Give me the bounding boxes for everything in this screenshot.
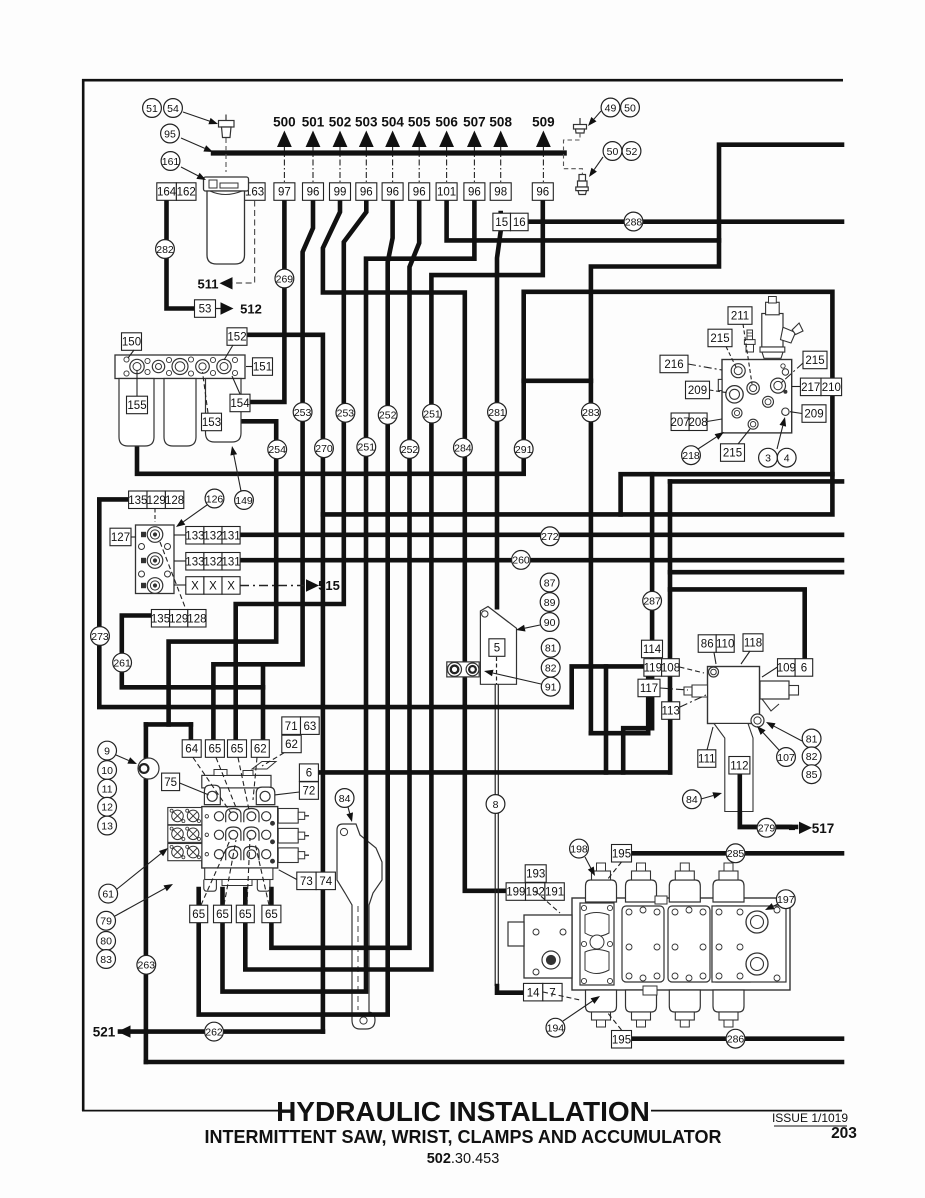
svg-text:X: X <box>191 581 199 593</box>
leader 209a <box>710 390 730 393</box>
svg-text:260: 260 <box>512 555 530 567</box>
svg-text:65: 65 <box>192 909 205 921</box>
svg-text:INTERMITTENT SAW, WRIST, CLAMP: INTERMITTENT SAW, WRIST, CLAMPS AND ACCU… <box>205 1127 722 1147</box>
leader 216 dashdot <box>688 364 722 370</box>
callout circle 82 <box>541 658 560 677</box>
hose 251a from port 509 to bottom label 65c <box>245 200 543 970</box>
callout circle 270 <box>315 439 334 458</box>
svg-text:11: 11 <box>102 784 113 796</box>
callout circle 285 <box>726 844 745 863</box>
svg-text:15: 15 <box>495 217 508 229</box>
svg-text:112: 112 <box>730 760 748 772</box>
svg-text:96: 96 <box>536 187 549 199</box>
hose link 291 to 283 <box>524 378 591 383</box>
labels 86 110 <box>698 635 734 653</box>
hose 97/269 to filter manifold <box>249 200 284 402</box>
svg-text:65: 65 <box>265 909 278 921</box>
label box 195 <box>612 845 632 863</box>
port 507 arrow <box>467 131 482 148</box>
callout circle 91 <box>541 677 560 696</box>
svg-text:152: 152 <box>227 332 246 344</box>
svg-text:14: 14 <box>527 987 540 999</box>
callout circle 291 <box>514 440 533 459</box>
svg-text:95: 95 <box>164 128 176 140</box>
callout circle 89 <box>540 593 559 612</box>
block ports <box>731 364 745 378</box>
svg-text:251: 251 <box>423 408 441 420</box>
port fitting near circle 9 <box>138 758 159 779</box>
leader 153 dashed <box>203 372 209 413</box>
svg-text:X: X <box>227 581 235 593</box>
svg-text:117: 117 <box>640 683 658 695</box>
svg-text:253: 253 <box>294 407 312 419</box>
svg-text:262: 262 <box>205 1026 223 1038</box>
callout circle 284 <box>454 438 473 457</box>
svg-text:191: 191 <box>545 887 564 899</box>
port 501 arrow <box>306 131 321 148</box>
port 504 arrow <box>385 131 400 148</box>
leader 81b to port <box>766 722 802 741</box>
label box 65 <box>205 740 224 758</box>
hose label 96 under port <box>409 183 430 201</box>
port 500 stem <box>283 147 285 183</box>
link valve to row2 <box>174 560 186 562</box>
small fitting left of solenoid <box>746 344 754 352</box>
port 508 arrow <box>493 131 508 148</box>
svg-text:155: 155 <box>127 400 146 412</box>
svg-text:6: 6 <box>801 663 807 675</box>
svg-text:263: 263 <box>138 960 156 972</box>
label box 65 <box>228 740 247 758</box>
svg-text:193: 193 <box>526 869 545 881</box>
svg-text:113: 113 <box>662 706 680 718</box>
callout circle 54 <box>164 99 183 118</box>
labels 133 132 131 row2 <box>185 553 240 571</box>
hose feed down to 109|6 box <box>670 589 805 660</box>
leader 198 to cap <box>585 857 595 876</box>
svg-text:133: 133 <box>185 530 204 542</box>
svg-text:198: 198 <box>570 843 588 855</box>
svg-text:253: 253 <box>337 408 355 420</box>
label box 113 <box>662 702 680 720</box>
label box 152 <box>227 328 247 346</box>
svg-text:279: 279 <box>758 823 776 835</box>
svg-text:119: 119 <box>644 663 662 675</box>
callout circle 4 <box>777 448 796 467</box>
hose 260 from 133-row2 to right edge <box>241 558 843 563</box>
svg-text:512: 512 <box>240 302 262 317</box>
callout circle 51 <box>143 99 162 118</box>
hose 282 from label 164 to box 53 <box>167 200 194 309</box>
hose label 99 under port <box>330 183 351 201</box>
port 502 arrow <box>333 131 348 148</box>
leader 9 to fitting <box>116 755 137 764</box>
callout circle 252 <box>378 406 397 425</box>
svg-text:502: 502 <box>329 115 352 130</box>
svg-text:16: 16 <box>513 217 526 229</box>
label box 209 <box>802 405 826 423</box>
callout circle 251 <box>357 438 376 457</box>
leader 207/208 <box>707 419 722 422</box>
labels 135 129 128 upper <box>128 491 184 509</box>
hose 263 long left vertical <box>144 724 149 1062</box>
main valve bank body <box>168 762 309 892</box>
svg-text:51: 51 <box>146 103 158 115</box>
arrow 512 <box>221 302 234 314</box>
labels 217 210 <box>800 378 841 396</box>
arrow 511 <box>220 277 233 289</box>
svg-text:81: 81 <box>545 643 557 655</box>
svg-text:54: 54 <box>167 103 179 115</box>
hose stub to label 64 <box>189 724 194 741</box>
leader 152 <box>224 345 233 360</box>
callout circle 288 <box>624 212 643 231</box>
svg-text:132: 132 <box>203 530 222 542</box>
label box 151 <box>253 358 273 376</box>
label box 65 <box>236 905 254 923</box>
hose label 96 under port <box>303 183 324 201</box>
leader 191 dashed <box>535 891 560 913</box>
svg-text:50: 50 <box>607 146 619 158</box>
port 504 stem <box>392 147 394 183</box>
callout circle 95 <box>161 124 180 143</box>
hose jog at 724 <box>146 722 191 727</box>
leader 61 to plates <box>117 848 168 889</box>
svg-text:64: 64 <box>185 744 198 756</box>
port 506 arrow <box>439 131 454 148</box>
hose label 98 under port <box>490 183 511 201</box>
leader 72 <box>275 792 300 795</box>
svg-text:96: 96 <box>360 187 373 199</box>
port 505 stem <box>418 147 420 183</box>
callout circle 10 <box>98 761 117 780</box>
callout circle 107 <box>777 748 796 767</box>
leader 215a <box>726 347 736 368</box>
callout circle 272 <box>541 527 560 546</box>
callout circle 90 <box>540 613 559 632</box>
callout circle 84 <box>335 789 354 808</box>
label box 65 <box>190 905 208 923</box>
callout circle 253 <box>336 403 355 422</box>
svg-text:13: 13 <box>101 820 113 832</box>
leader 195b <box>607 1012 622 1030</box>
svg-text:72: 72 <box>303 786 316 798</box>
callout circle 161 <box>161 152 180 171</box>
svg-text:65: 65 <box>231 744 244 756</box>
callout circle 149 <box>235 491 254 510</box>
svg-text:85: 85 <box>806 769 818 781</box>
hose 253b from port 503 to valve label 65b <box>236 200 367 741</box>
svg-text:252: 252 <box>401 444 419 456</box>
callout circle 198 <box>570 839 589 858</box>
svg-text:96: 96 <box>413 187 426 199</box>
svg-text:283: 283 <box>582 407 600 419</box>
svg-text:80: 80 <box>100 936 112 948</box>
leader 3/4 to port <box>777 417 786 449</box>
labels X X X row <box>186 577 240 595</box>
svg-text:150: 150 <box>122 337 141 349</box>
svg-text:515: 515 <box>318 578 340 593</box>
svg-text:285: 285 <box>727 848 745 860</box>
labels 207 208 <box>671 413 708 431</box>
svg-text:9: 9 <box>104 745 110 757</box>
callout circle 8 <box>486 795 505 814</box>
svg-text:149: 149 <box>235 495 253 507</box>
svg-text:3: 3 <box>765 453 771 465</box>
valve port leader <box>247 838 250 905</box>
svg-text:129: 129 <box>147 495 166 507</box>
svg-text:52: 52 <box>626 146 638 158</box>
hose 279 visible over plate <box>740 774 790 827</box>
link valve to rowX <box>174 584 186 586</box>
svg-text:128: 128 <box>187 613 206 625</box>
hose 285 to right edge <box>631 851 842 856</box>
label box 75 <box>162 773 180 791</box>
svg-text:96: 96 <box>307 187 320 199</box>
svg-text:273: 273 <box>91 631 109 643</box>
svg-text:500: 500 <box>273 115 296 130</box>
page border bottom-right segment <box>651 1110 842 1112</box>
svg-text:8: 8 <box>493 799 499 811</box>
callout circle 80 <box>97 932 116 951</box>
callout circle 269 <box>275 269 294 288</box>
svg-text:65: 65 <box>216 909 229 921</box>
labels 199 192 191 <box>506 883 564 901</box>
svg-text:12: 12 <box>101 802 113 814</box>
callout circle 273 <box>91 627 110 646</box>
svg-text:151: 151 <box>253 362 272 374</box>
leader 215b <box>781 363 803 383</box>
leader 217/210 <box>792 386 800 388</box>
port 505 arrow <box>412 131 427 148</box>
hose 281 thin pipe right edge <box>497 684 499 986</box>
svg-text:84: 84 <box>686 794 698 806</box>
svg-text:87: 87 <box>544 577 556 589</box>
valve port leader <box>224 840 236 905</box>
callout circle 50 <box>603 142 622 161</box>
arrow 521 <box>118 1025 131 1037</box>
port 509 stem <box>542 147 544 183</box>
svg-text:195: 195 <box>612 848 631 860</box>
callout circle 282 <box>156 240 175 259</box>
svg-text:82: 82 <box>806 751 818 763</box>
svg-text:272: 272 <box>541 531 559 543</box>
svg-text:215: 215 <box>710 333 729 345</box>
valve port leader <box>216 758 237 811</box>
port 508 stem <box>500 147 502 183</box>
valve port leader <box>238 758 249 811</box>
svg-text:62: 62 <box>285 739 298 751</box>
top manifold bar <box>211 150 567 155</box>
page border top <box>82 79 843 82</box>
svg-text:X: X <box>209 581 217 593</box>
hose 281 from port 508 down to bracket 5 <box>497 213 501 607</box>
svg-text:73: 73 <box>300 876 313 888</box>
leader 197 to pump <box>765 903 778 910</box>
svg-text:284: 284 <box>454 443 472 455</box>
hose 261 from 135-row2 right <box>122 616 263 688</box>
page border left <box>82 79 85 1111</box>
label box 62 <box>251 740 269 758</box>
leader 73/74 <box>279 870 297 880</box>
port 509 arrow <box>536 131 551 148</box>
leader 151 <box>246 366 253 368</box>
leader 111 <box>707 727 713 750</box>
leader 110 <box>714 653 716 665</box>
svg-text:90: 90 <box>544 617 556 629</box>
svg-text:110: 110 <box>716 639 734 651</box>
filter port labels 164 162 <box>157 183 196 201</box>
callout circle 13 <box>98 816 117 835</box>
svg-text:270: 270 <box>315 443 333 455</box>
leader 195a <box>607 862 622 880</box>
svg-text:211: 211 <box>731 311 749 323</box>
svg-text:5: 5 <box>494 643 500 655</box>
callout circle 52 <box>622 142 641 161</box>
port 502 stem <box>339 147 341 183</box>
svg-text:135: 135 <box>128 495 147 507</box>
filter 161 body <box>204 177 249 264</box>
label box 114 <box>642 640 663 658</box>
leader 215c <box>738 429 750 444</box>
svg-text:99: 99 <box>334 187 347 199</box>
callout circle 251 <box>423 404 442 423</box>
hose below box 113 <box>668 718 673 772</box>
hose label 101 under port <box>436 183 457 201</box>
page border bottom-left segment <box>82 1110 279 1112</box>
arrow 517 <box>799 822 812 834</box>
leader 211 <box>743 324 752 384</box>
callout circle 49 <box>601 98 620 117</box>
svg-text:199: 199 <box>506 887 525 899</box>
callout circle 286 <box>726 1029 745 1048</box>
svg-text:194: 194 <box>547 1023 565 1035</box>
label box 127 <box>110 528 131 546</box>
filter dashed port label 163 <box>244 183 265 201</box>
valve port leader <box>193 758 231 814</box>
leader 7 dashed <box>543 992 580 1000</box>
svg-text:50: 50 <box>624 102 636 114</box>
leader 150 <box>128 350 134 358</box>
hose 283 from junction 719 down <box>591 240 719 733</box>
hose 291 long loop from filter 155 right side and back <box>137 292 832 515</box>
svg-text:508: 508 <box>489 115 512 130</box>
label box 64 <box>182 740 201 758</box>
svg-text:97: 97 <box>278 187 291 199</box>
svg-text:65: 65 <box>209 744 222 756</box>
label box 216 <box>660 355 688 373</box>
svg-text:504: 504 <box>381 115 404 130</box>
svg-text:215: 215 <box>805 355 824 367</box>
hose label 97 under port <box>274 183 295 201</box>
svg-text:96: 96 <box>386 187 399 199</box>
label box 150 <box>122 333 142 351</box>
svg-text:91: 91 <box>545 682 557 694</box>
leader 117 dashdot <box>660 688 688 690</box>
leader 149 to canister <box>230 446 241 491</box>
svg-text:83: 83 <box>100 954 112 966</box>
label box 53 <box>195 300 216 318</box>
svg-text:218: 218 <box>682 450 700 462</box>
svg-text:161: 161 <box>162 156 180 168</box>
label box 215 <box>803 351 827 369</box>
link valve to row1 <box>174 534 186 536</box>
pump assembly main body <box>508 863 790 1027</box>
svg-text:216: 216 <box>664 359 683 371</box>
label box 215 <box>708 329 732 347</box>
hose 101 to top right edge <box>447 145 842 241</box>
svg-text:128: 128 <box>165 495 184 507</box>
svg-text:131: 131 <box>222 530 241 542</box>
hose 286 to right edge <box>631 1036 842 1041</box>
callout circle 12 <box>98 797 117 816</box>
accumulator manifold block <box>684 667 799 812</box>
svg-text:215: 215 <box>723 448 742 460</box>
label box 111 <box>698 750 716 768</box>
leader 54 to fitting <box>183 112 218 124</box>
callout circle 254 <box>268 440 287 459</box>
callout circle 283 <box>582 403 601 422</box>
label box 5 <box>489 639 505 657</box>
svg-text:65: 65 <box>239 909 252 921</box>
leader 84b to plate <box>701 792 722 799</box>
hose vertical 606 <box>604 666 609 772</box>
callout circle 279 <box>757 818 776 837</box>
callout circle 287 <box>643 591 662 610</box>
svg-text:286: 286 <box>727 1034 745 1046</box>
labels 109 6 <box>777 659 813 677</box>
hose 252a from port 504 to bottom label 65a <box>199 200 393 1015</box>
hose upper 572 line to right edge <box>670 570 842 575</box>
hose vertical 670 down to box 113 <box>668 481 673 702</box>
svg-text:133: 133 <box>185 556 204 568</box>
svg-text:81: 81 <box>806 733 818 745</box>
callout circle 87 <box>540 573 559 592</box>
hose 109-6 feed from right edge y=481 <box>670 479 842 484</box>
leader 194 to pump bottom <box>563 996 600 1021</box>
leader 154 <box>232 376 240 394</box>
svg-text:261: 261 <box>113 657 131 669</box>
leader 108 <box>680 667 705 673</box>
leader 209b <box>790 412 802 414</box>
label box 154 <box>230 394 250 412</box>
svg-text:82: 82 <box>545 663 557 675</box>
svg-text:254: 254 <box>268 444 286 456</box>
svg-text:107: 107 <box>777 752 795 764</box>
svg-text:507: 507 <box>463 115 486 130</box>
callout circle 197 <box>776 890 795 909</box>
labels 135 129 128 lower <box>151 610 207 628</box>
fitting 50/52 <box>576 175 588 195</box>
label box 6 <box>299 764 318 782</box>
label box 112 <box>729 757 750 775</box>
svg-text:10: 10 <box>101 765 113 777</box>
label box 117 <box>638 679 660 697</box>
valve port leader <box>255 843 269 905</box>
port 506 stem <box>446 147 448 183</box>
leader 127 <box>131 536 136 538</box>
svg-text:HYDRAULIC INSTALLATION: HYDRAULIC INSTALLATION <box>276 1096 650 1127</box>
hose label 96 under port <box>356 183 377 201</box>
port 507 stem <box>473 147 475 183</box>
svg-text:61: 61 <box>102 888 114 900</box>
labels 73 74 <box>297 872 336 890</box>
dashed line 163 to 511 <box>228 201 255 284</box>
label box 155 <box>127 396 148 414</box>
leader 161 to filter <box>181 167 206 180</box>
test fitting 51/54 <box>219 115 235 138</box>
svg-text:111: 111 <box>698 754 715 766</box>
